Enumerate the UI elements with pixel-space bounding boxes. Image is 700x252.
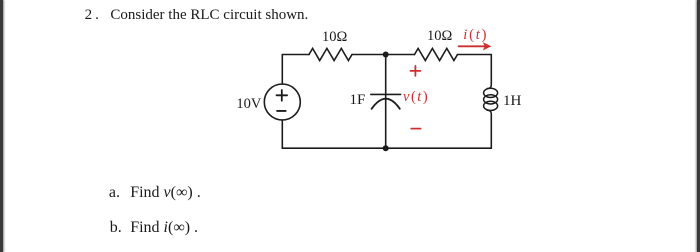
label 1F capacitor <box>350 93 366 108</box>
wire bottom horizontal <box>282 147 491 149</box>
right page edge bar <box>697 0 700 252</box>
label 10Ω left resistor <box>322 30 347 45</box>
resistor 10ohm right (R-right) <box>415 48 458 60</box>
label v(t) red <box>403 90 429 105</box>
wire middle vertical <box>385 55 387 149</box>
wire top middle horizontal <box>352 54 415 56</box>
voltage source VS 10V <box>264 84 300 120</box>
wire left vertical upper <box>281 55 283 85</box>
question b <box>110 220 122 236</box>
label 1H inductor <box>503 94 521 109</box>
wire top right horizontal <box>458 54 492 56</box>
node top (junction dot) <box>383 52 389 58</box>
wire left vertical lower <box>281 120 283 148</box>
question a <box>109 185 120 201</box>
voltage source plus sign <box>277 90 288 101</box>
node bottom (junction dot) <box>383 145 389 151</box>
title number 2. <box>85 8 102 23</box>
voltage source minus sign <box>277 110 286 112</box>
wire right vertical upper <box>490 55 492 85</box>
current arrow i(t) <box>459 42 492 50</box>
label v polarity plus (red) <box>410 66 420 76</box>
wire right vertical lower <box>490 115 492 149</box>
label 10Ω right resistor <box>427 29 452 44</box>
label i(t) current <box>463 28 488 43</box>
label 10V source <box>236 97 261 112</box>
inductor L 1H coil <box>484 84 498 115</box>
title text <box>110 8 308 23</box>
capacitor C 1F top plate <box>371 93 401 95</box>
left page edge bar <box>0 0 3 252</box>
label v polarity minus (red) <box>411 128 420 130</box>
wire top left horizontal <box>282 54 309 56</box>
resistor 10ohm left (R-left) <box>309 48 352 60</box>
capacitor C 1F curved plate <box>372 99 400 109</box>
